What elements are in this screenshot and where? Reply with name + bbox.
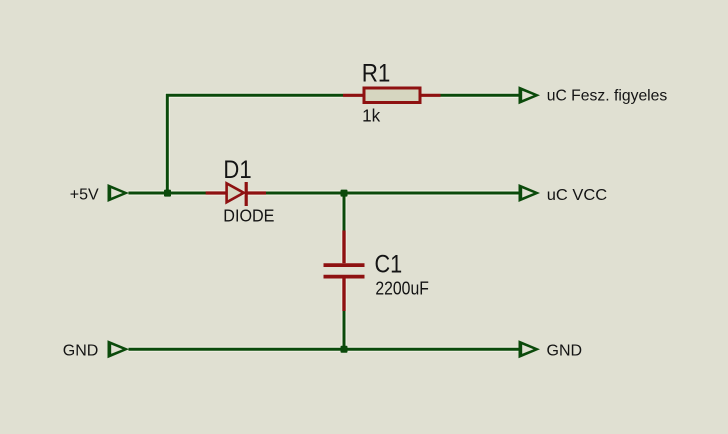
- wire: top net from corner to resistor pin, with vertical drop to +5V net: [167, 95, 343, 193]
- wire: resistor right pin to uC Fesz. figyeles pinhead: [441, 94, 519, 97]
- resistor R1: [343, 88, 441, 103]
- svg-text:uC VCC: uC VCC: [547, 186, 608, 204]
- capacitor C1: [324, 231, 365, 312]
- svg-text:1k: 1k: [362, 105, 380, 126]
- junction at GND / C1 node: [341, 346, 348, 353]
- svg-text:D1: D1: [223, 156, 251, 184]
- wire halo (decorative light fringe along all nets): [129, 95, 519, 349]
- power pinhead GND left: [108, 340, 130, 358]
- svg-text:uC Fesz. figyeles: uC Fesz. figyeles: [547, 87, 668, 104]
- pinhead uC Fesz. figyeles: [519, 86, 541, 104]
- svg-text:C1: C1: [375, 250, 403, 278]
- wire: GND net bottom: [129, 348, 519, 351]
- pinhead uC VCC: [519, 184, 541, 202]
- wire: +5V pinhead to diode anode: [129, 192, 207, 195]
- wire: capacitor branch lower green segment: [343, 311, 346, 349]
- pinhead GND right: [519, 340, 541, 358]
- wire: capacitor branch upper green segment: [343, 193, 346, 231]
- power pinhead +5V: [108, 184, 130, 202]
- diode D1: [206, 182, 266, 206]
- svg-text:+5V: +5V: [70, 187, 99, 204]
- junction at uC VCC / C1 node: [341, 190, 348, 197]
- wire: diode cathode to uC VCC pinhead: [266, 192, 519, 195]
- svg-text:GND: GND: [547, 342, 583, 359]
- svg-text:DIODE: DIODE: [223, 206, 274, 226]
- svg-text:R1: R1: [362, 61, 391, 88]
- svg-text:2200uF: 2200uF: [375, 279, 428, 299]
- svg-text:GND: GND: [63, 342, 99, 359]
- junction at +5V node: [164, 190, 171, 197]
